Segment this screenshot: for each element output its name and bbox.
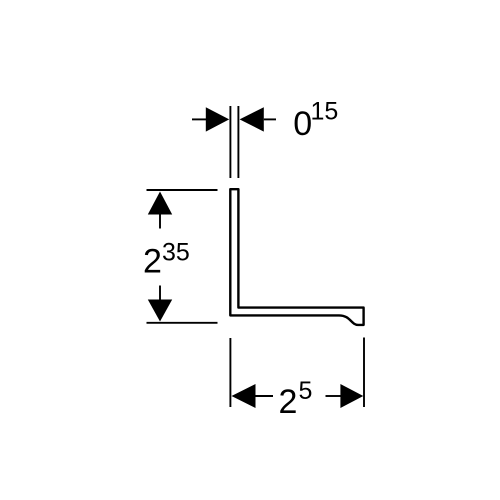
dimension 2.5: left arrowhead: [232, 384, 256, 408]
dimension 0.15: left arrowhead: [206, 107, 229, 131]
svg-text:5: 5: [299, 377, 313, 405]
dimension 2.35: upper tail: [159, 214, 161, 229]
dimension 0.15: right tail: [264, 118, 276, 120]
dimension 2.5: right tail: [326, 395, 342, 397]
svg-text:2: 2: [143, 242, 162, 280]
dimension 0.15: left tail: [192, 118, 207, 120]
dimension 2.35: up arrowhead: [148, 192, 172, 215]
dimension 2.5: extension line right: [363, 338, 365, 408]
dimension 2.5: left tail: [256, 395, 274, 397]
svg-text:35: 35: [162, 238, 190, 266]
dimension 2.35: lower tail: [159, 286, 161, 301]
dimension 2.35: extension line top: [147, 189, 218, 191]
dimension 2.35: extension line bottom: [147, 322, 218, 324]
svg-text:15: 15: [311, 98, 339, 126]
dimension 0.15: extension line left: [229, 106, 231, 178]
dimension 0.15: extension line right: [237, 106, 239, 178]
dimension 0.15: right arrowhead: [240, 107, 264, 131]
dimension 2.5: right arrowhead: [340, 384, 363, 408]
L-profile outline: [230, 189, 363, 325]
svg-text:0: 0: [293, 105, 312, 143]
dimension 2.35: down arrowhead: [148, 300, 172, 322]
svg-text:2: 2: [279, 383, 298, 421]
dimension 2.5: extension line left: [229, 338, 231, 407]
